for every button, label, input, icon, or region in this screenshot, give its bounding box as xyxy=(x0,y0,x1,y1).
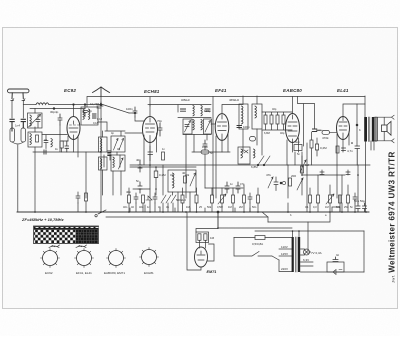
wire x302 vertical low xyxy=(301,152,303,165)
electrolytic caps 50+50 xyxy=(356,203,367,212)
resistor lower right xyxy=(310,140,313,148)
speaker xyxy=(382,121,392,135)
dial cord loop left xyxy=(49,245,60,248)
tube EF41 xyxy=(215,114,229,141)
svg-text:1M: 1M xyxy=(210,236,215,240)
pot arrow det xyxy=(268,177,273,188)
coil in box1 xyxy=(30,115,31,126)
capacitor antenna right xyxy=(21,119,25,128)
wire rail down-left to bus xyxy=(85,152,87,198)
capacitor 100n xyxy=(133,107,137,117)
svg-text:7V 0,3A: 7V 0,3A xyxy=(311,251,322,255)
T1 capacitor bars xyxy=(93,114,97,118)
svg-text:ECH81: ECH81 xyxy=(144,89,160,94)
switch arrows xyxy=(161,195,176,203)
svg-text:1M: 1M xyxy=(228,205,232,209)
coil in filter box xyxy=(30,134,31,145)
svg-text:100p: 100p xyxy=(204,109,211,113)
styro capacitor 2 xyxy=(250,137,256,142)
wire x342 vertical xyxy=(341,175,343,212)
EM71 circuit box xyxy=(196,232,209,243)
wire y165 run xyxy=(130,164,288,166)
tube socket ECH81 xyxy=(140,248,159,276)
svg-text:110V: 110V xyxy=(281,245,288,249)
bottom rail y272 xyxy=(301,271,365,273)
capacitor xyxy=(248,193,252,203)
capacitor cathode xyxy=(65,141,69,152)
wire EC92 lower rail xyxy=(33,125,101,152)
svg-text:5n: 5n xyxy=(210,151,214,155)
svg-text:1n4: 1n4 xyxy=(15,124,20,128)
power rail y228 xyxy=(218,227,292,229)
svg-text:25n: 25n xyxy=(344,205,349,209)
tuning capacitor bars xyxy=(108,151,111,156)
resistor xyxy=(232,195,235,203)
plug contacts xyxy=(11,99,25,101)
resistor right4 xyxy=(347,195,350,203)
coupling loop wires xyxy=(298,97,315,147)
wire ECH81 pins xyxy=(144,133,157,198)
svg-text:47k: 47k xyxy=(266,173,271,177)
power transformer core xyxy=(296,237,298,272)
rail y231 right xyxy=(255,230,364,232)
svg-text:40n: 40n xyxy=(139,205,144,209)
T2 trimmer arrow left xyxy=(185,121,191,133)
power transformer primary bar xyxy=(292,237,294,272)
heater winding wire 6.3V xyxy=(301,262,314,266)
grid resistor oval xyxy=(322,131,330,135)
dial checker band xyxy=(34,226,99,244)
antenna xyxy=(8,89,30,101)
wire coil bottom join xyxy=(12,142,23,212)
middle rail y152 xyxy=(192,151,230,153)
dial cord loop right xyxy=(76,245,87,248)
wire screen branch xyxy=(356,104,358,146)
wire oval to EL41 grid xyxy=(320,130,336,132)
FM tuner trimmer box B xyxy=(111,136,125,152)
resistor det vertical xyxy=(289,178,292,186)
switch dots xyxy=(257,164,259,166)
wire T2 drops xyxy=(186,135,207,199)
node dot dipole xyxy=(100,104,102,106)
svg-text:70p: 70p xyxy=(157,119,162,123)
wire box1 top to antenna wire xyxy=(34,109,36,133)
svg-text:100p: 100p xyxy=(243,125,250,129)
detector resistor row xyxy=(264,115,285,124)
diode arrows xyxy=(244,150,248,153)
svg-text:40k: 40k xyxy=(185,173,190,177)
svg-text:4,7n: 4,7n xyxy=(347,149,353,153)
T2 bottom rail xyxy=(183,134,211,136)
wire vol pot xyxy=(301,156,303,165)
speaker rails xyxy=(374,117,392,141)
Gm box xyxy=(294,145,302,151)
wire to bus left xyxy=(12,122,23,128)
svg-text:ZF=468kHz + 10,7MHz: ZF=468kHz + 10,7MHz xyxy=(21,217,64,222)
svg-text:0,18: 0,18 xyxy=(97,117,103,121)
wire EF41 pins xyxy=(216,134,228,198)
vertical drops to bus xyxy=(78,175,355,212)
volume pot with arrow xyxy=(329,195,332,203)
T2 capacitor left xyxy=(181,109,186,111)
resistor 0.2M right oval xyxy=(315,144,318,150)
resistor 1k xyxy=(36,135,39,142)
pot tone xyxy=(301,166,304,173)
line y222 heater xyxy=(268,213,330,222)
pins ticks on bus xyxy=(130,205,268,217)
resistor row mid2 xyxy=(211,195,214,203)
volume potentiometer arrow xyxy=(300,160,306,172)
resistor xyxy=(243,195,246,203)
capacitor right xyxy=(353,193,357,203)
resistor r2 xyxy=(142,195,145,203)
capacitor 1n xyxy=(153,193,157,203)
EC92 grid dashes xyxy=(70,124,80,126)
trimmer arrow box1 xyxy=(29,115,41,128)
capacitor det mid xyxy=(274,177,278,191)
wire EF41 top xyxy=(222,105,243,114)
wire cathode jog xyxy=(62,141,68,152)
wire osc tops xyxy=(98,122,125,137)
bus 2 y217 xyxy=(106,217,268,222)
svg-text:0,1: 0,1 xyxy=(305,205,309,209)
tube ECH81 xyxy=(143,117,158,143)
output transformer primary bar xyxy=(364,117,367,142)
svg-text:0,2M: 0,2M xyxy=(159,173,166,177)
detector row wires xyxy=(262,112,292,130)
capacitor 47p det xyxy=(236,182,240,193)
wire EC92 grid left xyxy=(42,134,67,136)
svg-text:0,3: 0,3 xyxy=(313,205,317,209)
diode d1 xyxy=(146,196,152,200)
svg-text:6,3V: 6,3V xyxy=(303,258,309,262)
wire det output down xyxy=(261,130,263,155)
svg-text:10,7MHz: 10,7MHz xyxy=(90,102,103,106)
svg-text:40n: 40n xyxy=(126,190,131,194)
rectifier Gl box xyxy=(327,262,344,272)
svg-text:EABC80, EM71: EABC80, EM71 xyxy=(104,271,125,275)
T2 capacitor right xyxy=(205,109,210,111)
EF41 internals xyxy=(218,115,227,140)
wire transformer top xyxy=(364,96,366,117)
node dot grid xyxy=(134,112,136,114)
dial lamp circle xyxy=(304,249,310,255)
wire EC92 anode up xyxy=(73,105,75,117)
potentiometer with arrow xyxy=(221,195,224,203)
svg-text:EC92: EC92 xyxy=(45,271,53,275)
wire filter down xyxy=(34,147,36,212)
main bus y212 xyxy=(17,211,369,213)
mains switch xyxy=(234,238,279,261)
capacitor c row xyxy=(134,193,138,203)
resistor right3 xyxy=(339,195,342,203)
resistor EC92 cathode xyxy=(60,141,63,148)
svg-text:0,5/0,8A: 0,5/0,8A xyxy=(252,242,263,246)
wire EABC80 pins xyxy=(287,138,299,165)
AM osc resistor xyxy=(184,176,187,183)
EL41 internals xyxy=(339,117,347,140)
rectifier cap xyxy=(333,257,338,262)
svg-text:50µ 50µ: 50µ 50µ xyxy=(354,199,365,203)
svg-text:EF41, EL41: EF41, EL41 xyxy=(76,271,92,275)
tube EABC80 xyxy=(286,114,300,143)
capacitor 50p to ground xyxy=(83,105,87,117)
AM oscillator box xyxy=(168,170,196,192)
det coil right xyxy=(254,149,256,158)
tube socket EC92 xyxy=(41,249,60,276)
wire transformer top to bus xyxy=(293,231,300,237)
inductor L1 xyxy=(36,103,49,105)
wire rail y167 xyxy=(130,166,196,168)
node dot xyxy=(84,104,86,106)
wire x358 vertical xyxy=(357,165,359,203)
FM det transformer box xyxy=(238,147,250,164)
svg-text:EM71: EM71 xyxy=(207,270,217,274)
coupling capacitor bars xyxy=(313,129,321,132)
T2 trimmer box left xyxy=(183,119,192,134)
svg-text:465kHz: 465kHz xyxy=(229,98,240,102)
junction dots row xyxy=(100,142,359,232)
svg-text:125V: 125V xyxy=(281,252,288,256)
tube EC92 xyxy=(67,117,80,140)
wire EABC80 top xyxy=(292,97,294,114)
wire EC92 pins down xyxy=(68,136,78,157)
wire diagonal coupling xyxy=(101,104,129,113)
svg-text:5n: 5n xyxy=(136,179,140,183)
wire lamp feed xyxy=(307,222,309,249)
capacitor 40 xyxy=(44,135,48,149)
wire resistor right xyxy=(316,138,318,156)
wire EL41 pins xyxy=(337,132,349,198)
speaker corner ticks xyxy=(392,115,395,143)
resistor r0 xyxy=(85,193,88,201)
switch on bus left xyxy=(95,210,106,217)
svg-text:2M: 2M xyxy=(239,205,243,209)
wire osc downs xyxy=(103,152,122,195)
resistor mid x163 xyxy=(162,152,165,160)
wire EL41 top xyxy=(343,104,365,117)
capacitor 100p det xyxy=(203,140,207,150)
resistor r4 xyxy=(195,195,198,203)
wire T3 tops xyxy=(243,96,257,104)
voltage tap 220V xyxy=(279,260,292,272)
lamp wires xyxy=(301,249,311,255)
rectifier diode xyxy=(333,270,342,275)
capacitor 30p at dipole xyxy=(97,102,103,108)
svg-text:Gl: Gl xyxy=(336,253,339,257)
resistor EM71 b xyxy=(204,234,207,241)
svg-text:1M: 1M xyxy=(325,205,329,209)
AM osc coil xyxy=(173,173,175,188)
T2 cap bars left box xyxy=(185,125,189,127)
bottom component row: resistors xyxy=(76,192,357,204)
svg-text:6,8M: 6,8M xyxy=(264,131,270,135)
resistor r3 xyxy=(181,195,184,203)
capacitor 70p xyxy=(158,123,162,136)
voltage tap 125V xyxy=(279,255,292,257)
svg-text:50k: 50k xyxy=(207,205,212,209)
capacitor 1n tone xyxy=(320,172,324,175)
ferrite antenna coil right xyxy=(21,128,26,142)
capacitor 5n mid xyxy=(138,182,142,193)
svg-text:ECH81: ECH81 xyxy=(144,271,154,275)
wire grid zigzag xyxy=(129,113,144,121)
wire transformer bottom down xyxy=(366,141,375,212)
EL41 cathode RC xyxy=(336,146,339,153)
IF transformer T2 top rail xyxy=(178,105,211,112)
svg-text:0,2M: 0,2M xyxy=(320,146,327,150)
wire resistor lower xyxy=(311,132,313,165)
coil A xyxy=(101,139,102,152)
svg-text:500kHz: 500kHz xyxy=(176,198,187,202)
svg-text:100p: 100p xyxy=(202,145,208,149)
small box on bus xyxy=(332,207,340,212)
svg-text:EC92: EC92 xyxy=(64,88,76,93)
trimmer arrow D xyxy=(119,158,124,169)
FM tuner coil box A xyxy=(99,137,108,152)
wire top rail y96 xyxy=(87,97,365,108)
pot arrow det2 xyxy=(297,178,303,190)
output transformer core lines xyxy=(368,117,377,142)
resistor r1 xyxy=(128,195,131,203)
svg-text:0,18: 0,18 xyxy=(93,121,99,125)
IF transformer T1 box xyxy=(81,107,98,125)
voltage tap 110V xyxy=(279,248,292,250)
capacitor 5n left xyxy=(76,192,80,203)
bus junction dots xyxy=(34,188,367,213)
T2 trimmer arrow right xyxy=(205,121,211,133)
svg-text:EF41: EF41 xyxy=(215,88,227,93)
tone control area wires xyxy=(288,165,370,175)
svg-text:465kHz: 465kHz xyxy=(181,98,190,102)
svg-text:50k: 50k xyxy=(336,205,341,209)
vertical wires misc right xyxy=(288,152,302,212)
EC92 internals xyxy=(69,121,78,140)
svg-text:40p: 40p xyxy=(272,107,277,111)
T2 coil D xyxy=(201,120,202,130)
FM tuner coil box C xyxy=(99,157,108,170)
node dot y108 xyxy=(53,108,55,110)
output transformer secondary bar xyxy=(372,117,375,142)
wire T3 downs xyxy=(243,129,257,152)
input band filter box xyxy=(28,132,42,147)
svg-text:0,5M: 0,5M xyxy=(217,205,223,209)
svg-text:EABC80: EABC80 xyxy=(283,88,302,93)
capacitor in box1 xyxy=(36,115,40,128)
IF transformer T3 coil tall xyxy=(239,104,248,129)
FM tuner coil box D xyxy=(111,155,125,171)
capacitor 150p ECH81 xyxy=(148,146,153,161)
tube socket EABC80 xyxy=(104,249,126,276)
wire antenna down-left xyxy=(11,101,13,119)
AM osc trimmer arrow xyxy=(190,173,196,186)
T2 coil B xyxy=(201,106,202,116)
capacitor 47n tone xyxy=(346,172,350,175)
resistor right2 xyxy=(317,195,320,203)
capacitor 4.7n out xyxy=(355,146,360,165)
junction dot main xyxy=(217,211,219,213)
svg-text:40n: 40n xyxy=(123,205,128,209)
FM det coil xyxy=(241,149,243,158)
coil 0.5 xyxy=(51,139,52,147)
wire styro down xyxy=(204,154,206,188)
coil C xyxy=(101,159,102,169)
fuse xyxy=(255,236,265,240)
styro capacitor xyxy=(201,150,209,154)
svg-text:1M: 1M xyxy=(186,205,190,209)
wire second line y108.5 xyxy=(30,108,85,110)
vertical drops mid extra xyxy=(104,155,190,212)
trimmer arrows B xyxy=(114,139,124,151)
T2 coil A xyxy=(193,106,194,116)
svg-text:220V: 220V xyxy=(281,267,288,271)
T2 trimmer box right xyxy=(204,119,212,134)
tiny value labels row xyxy=(44,98,353,217)
wire x307 vertical xyxy=(306,143,308,212)
node dot screen xyxy=(356,124,358,126)
coil D xyxy=(113,157,114,167)
svg-text:40p: 40p xyxy=(280,131,285,135)
svg-text:200: 200 xyxy=(291,174,296,178)
wire antenna horizontal xyxy=(23,104,36,106)
FM dipole arrow xyxy=(93,87,110,96)
wire EM71 connects xyxy=(187,213,218,271)
ratio detector box xyxy=(252,104,262,129)
svg-text:4p: 4p xyxy=(55,110,59,114)
T2 coil C xyxy=(193,120,194,130)
capacitor +1b on rail xyxy=(44,150,46,154)
AM-FM switch arrows xyxy=(258,156,270,165)
wire ECH81 anode to T2 xyxy=(148,104,178,106)
resistor EM71 a xyxy=(198,234,201,241)
wire rect right vertical xyxy=(363,231,365,272)
resistor 0.2M oval xyxy=(154,171,158,178)
svg-text:100n: 100n xyxy=(126,107,133,111)
EM71 internals xyxy=(197,251,205,260)
tube EM71 xyxy=(195,247,208,267)
svg-text:Gm: Gm xyxy=(295,140,300,144)
capacitor 100p T3 xyxy=(237,126,242,128)
wire resistor 0.2M xyxy=(155,167,157,195)
tube socket EF41 EL41 xyxy=(75,249,94,276)
ECH81 internals xyxy=(146,118,155,142)
wire inductor to dipole xyxy=(49,104,101,106)
capacitor antenna left xyxy=(10,119,14,131)
wire ECH81 anode top xyxy=(149,105,151,117)
wire antenna down-right xyxy=(22,101,24,119)
wire AVC vertical xyxy=(212,97,214,196)
svg-text:40p: 40p xyxy=(136,158,141,162)
wire EF41 grid xyxy=(211,123,215,125)
svg-text:470k: 470k xyxy=(322,136,329,140)
capacitor 1p EC92 xyxy=(58,114,62,125)
tube EL41 xyxy=(337,117,350,140)
wire grid y133 xyxy=(125,132,142,134)
wire down from bus to EM71 xyxy=(217,212,219,228)
T2 mid rail xyxy=(178,117,211,119)
wire y189 xyxy=(133,188,150,190)
ferrite antenna coil left xyxy=(10,128,15,142)
wire dipole vertical main xyxy=(100,96,102,212)
resistor right1 xyxy=(309,195,312,203)
T1 coils xyxy=(83,109,90,119)
power transformer secondary bar xyxy=(298,237,300,272)
resistor xyxy=(257,195,260,203)
tuned circuit box 1 xyxy=(28,113,43,128)
EABC80 internals xyxy=(288,115,297,143)
wire fuse xyxy=(234,237,292,239)
svg-text:50n: 50n xyxy=(252,205,257,209)
